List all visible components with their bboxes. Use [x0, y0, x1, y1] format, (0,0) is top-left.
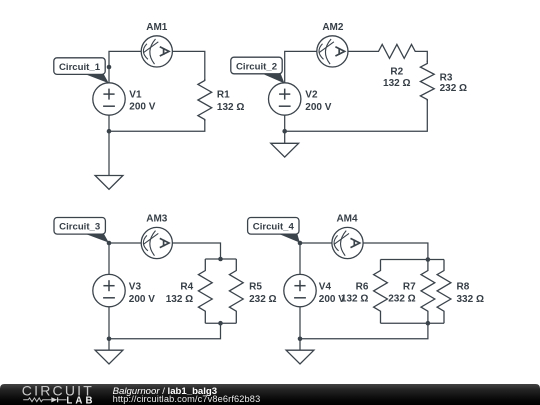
- svg-text:LAB: LAB: [66, 395, 95, 405]
- label V1: [129, 89, 142, 100]
- wire: [285, 100, 428, 132]
- wire: [381, 259, 445, 261]
- junction: [107, 129, 112, 134]
- svg-text:200 V: 200 V: [129, 294, 155, 305]
- value R2 132 Ohm: [383, 78, 410, 89]
- wire: [285, 51, 317, 82]
- label R7: [403, 281, 416, 292]
- footer title: [113, 386, 218, 397]
- wire: [299, 307, 301, 339]
- voltage source V2: [269, 83, 301, 115]
- wire: [108, 115, 110, 131]
- wire: [300, 323, 428, 339]
- value R6 132 Ohm: [341, 294, 368, 305]
- value R4 132 Ohm: [166, 294, 193, 305]
- value V4 200 V: [319, 294, 345, 305]
- svg-text:232 Ω: 232 Ω: [249, 294, 276, 305]
- wire: [417, 51, 428, 62]
- ammeter AM3: [141, 227, 172, 258]
- svg-text:332 Ω: 332 Ω: [457, 294, 484, 305]
- svg-text:232 Ω: 232 Ω: [440, 83, 467, 94]
- resistor R8: [437, 260, 451, 324]
- svg-text:200 V: 200 V: [305, 102, 331, 113]
- svg-text:Circuit_3: Circuit_3: [59, 222, 100, 233]
- junction: [218, 321, 223, 326]
- CircuitLab logo: [22, 382, 96, 405]
- ammeter AM2: [317, 36, 348, 67]
- svg-text:Circuit_1: Circuit_1: [59, 62, 101, 73]
- svg-text:AM3: AM3: [146, 214, 168, 225]
- wire: [300, 243, 332, 274]
- svg-text:http://circuitlab.com/c7v8e6rf: http://circuitlab.com/c7v8e6rf62b83: [113, 394, 261, 404]
- svg-text:132 Ω: 132 Ω: [383, 78, 410, 89]
- ground: [95, 339, 123, 364]
- svg-text:R7: R7: [403, 281, 416, 292]
- wire: [109, 243, 141, 274]
- wire: [205, 322, 236, 324]
- svg-text:R4: R4: [180, 282, 193, 293]
- ground: [271, 131, 299, 157]
- svg-text:Circuit_2: Circuit_2: [236, 61, 277, 72]
- wire: [172, 51, 204, 80]
- svg-text:R8: R8: [457, 282, 470, 293]
- svg-text:V1: V1: [129, 89, 142, 100]
- node flag Circuit_2: [231, 57, 285, 83]
- svg-text:R2: R2: [390, 67, 403, 78]
- svg-text:V4: V4: [319, 282, 332, 293]
- label V2: [305, 90, 318, 101]
- label R8: [457, 282, 470, 293]
- value R1 132 Ohm: [217, 102, 244, 113]
- svg-text:132 Ω: 132 Ω: [341, 294, 368, 305]
- label R5: [249, 282, 262, 293]
- junction: [218, 257, 223, 262]
- resistor R1: [198, 79, 212, 121]
- node Circuit_3 junction: [107, 241, 112, 246]
- ground: [286, 339, 314, 364]
- junction: [426, 257, 431, 262]
- value R8 332 Ohm: [457, 294, 484, 305]
- svg-text:132 Ω: 132 Ω: [217, 102, 244, 113]
- ground: [95, 131, 123, 189]
- svg-text:R1: R1: [217, 90, 230, 101]
- node Circuit_1 junction: [107, 65, 112, 70]
- label R4: [180, 282, 193, 293]
- node flag Circuit_4: [248, 218, 300, 243]
- node flag Circuit_3: [54, 218, 109, 243]
- wire: [205, 258, 236, 260]
- wire: [363, 243, 428, 260]
- label R1: [217, 90, 230, 101]
- label V3: [129, 282, 142, 293]
- value R5 232 Ohm: [249, 294, 276, 305]
- resistor R3: [420, 61, 434, 102]
- wire: [109, 51, 141, 82]
- svg-text:Circuit_4: Circuit_4: [253, 222, 295, 233]
- node Circuit_4 junction: [298, 241, 303, 246]
- label R6: [356, 281, 369, 292]
- wire: [381, 322, 445, 324]
- svg-text:R3: R3: [440, 72, 453, 83]
- resistor R4: [198, 259, 212, 323]
- junction: [282, 129, 287, 134]
- junction: [426, 321, 431, 326]
- ammeter AM1: [141, 36, 172, 67]
- svg-text:200 V: 200 V: [129, 102, 155, 113]
- svg-text:R6: R6: [356, 281, 369, 292]
- label AM4: [336, 214, 358, 225]
- resistor R2: [377, 44, 417, 58]
- svg-text:132 Ω: 132 Ω: [166, 294, 193, 305]
- voltage source V4: [284, 274, 316, 306]
- resistor R7: [421, 260, 435, 324]
- wire: [109, 323, 221, 339]
- value R3 232 Ohm: [440, 83, 467, 94]
- footer url: [113, 394, 261, 404]
- svg-text:AM1: AM1: [146, 22, 168, 33]
- resistor R6: [374, 260, 388, 324]
- footer bar: [0, 384, 540, 405]
- label AM1: [146, 22, 168, 33]
- wire: [108, 307, 110, 339]
- value R7 232 Ohm: [388, 294, 415, 305]
- node flag Circuit_1: [54, 58, 109, 84]
- wire: [109, 120, 205, 132]
- voltage source V1: [93, 83, 125, 115]
- label R3: [440, 72, 453, 83]
- wire: [284, 115, 286, 131]
- svg-text:200 V: 200 V: [319, 294, 345, 305]
- svg-text:AM2: AM2: [322, 22, 344, 33]
- label V4: [319, 282, 332, 293]
- label AM2: [322, 22, 344, 33]
- value V3 200 V: [129, 294, 155, 305]
- label AM3: [146, 214, 168, 225]
- junction: [107, 337, 112, 342]
- svg-text:R5: R5: [249, 282, 262, 293]
- junction: [298, 337, 303, 342]
- svg-text:V3: V3: [129, 282, 142, 293]
- svg-text:AM4: AM4: [336, 214, 358, 225]
- voltage source V3: [93, 274, 125, 306]
- wire: [172, 243, 220, 259]
- ammeter AM4: [332, 227, 363, 258]
- resistor R5: [229, 259, 243, 323]
- svg-text:232 Ω: 232 Ω: [388, 294, 415, 305]
- wire: [348, 50, 377, 52]
- value V1 200 V: [129, 102, 155, 113]
- svg-text:V2: V2: [305, 90, 318, 101]
- label R2: [390, 67, 403, 78]
- value V2 200 V: [305, 102, 331, 113]
